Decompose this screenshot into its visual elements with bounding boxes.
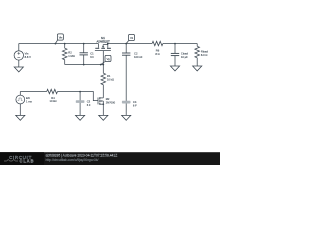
capacitor Cload xyxy=(171,44,179,67)
transistor M2 (NMOS 2N7000) xyxy=(98,97,103,115)
svg-text:Vin: Vin xyxy=(25,52,29,56)
wire gate node horizontal xyxy=(65,64,104,66)
node flag Vin xyxy=(55,34,64,45)
svg-text:6 F: 6 F xyxy=(87,103,91,107)
label Cload 10 µF xyxy=(181,51,189,58)
capacitor C4 xyxy=(122,101,131,116)
svg-text:10 kΩ: 10 kΩ xyxy=(49,99,56,103)
ground (under Cload) xyxy=(170,66,179,71)
svg-text:R4: R4 xyxy=(51,96,55,100)
svg-text:8.0 Ω: 8.0 Ω xyxy=(201,53,208,57)
label C4 6 F xyxy=(133,100,137,107)
label Rload 8.0 Ω xyxy=(201,49,209,56)
svg-text:10 µF: 10 µF xyxy=(181,55,188,59)
label M1 AON6512ST xyxy=(97,36,111,43)
resistor R4 xyxy=(47,89,58,93)
capacitor C2 xyxy=(122,44,130,102)
watermark bar xyxy=(0,152,220,165)
label R2 1 MΩ xyxy=(68,50,75,57)
ground (under Rload) xyxy=(193,66,202,71)
voltage source Vin xyxy=(14,44,23,68)
svg-text:CLAB: CLAB xyxy=(20,159,35,164)
svg-text:C2: C2 xyxy=(134,52,138,56)
svg-text:AON6512ST: AON6512ST xyxy=(97,39,111,43)
node flag Vg xyxy=(100,55,111,65)
node junction M2 source/bulk xyxy=(102,103,104,105)
resistor R6 xyxy=(152,41,163,45)
svg-text:1 MΩ: 1 MΩ xyxy=(68,54,75,58)
label EN 1 ms xyxy=(26,96,32,103)
ground (under C4) xyxy=(122,115,131,120)
label C3 6 F xyxy=(87,100,91,107)
svg-text:6 F: 6 F xyxy=(133,103,137,107)
node junction Cload top xyxy=(174,43,176,45)
ground (under C3) xyxy=(76,115,85,120)
svg-text:http://circuitlab.com/c/9jay26: http://circuitlab.com/c/9jay26vgse3k/ xyxy=(46,158,99,162)
ground (under EN) xyxy=(16,115,25,120)
node flag V1 xyxy=(125,34,134,44)
svg-text:C4: C4 xyxy=(133,100,137,104)
ground (under Vin) xyxy=(14,67,23,72)
label R6 8 Ω xyxy=(155,49,159,56)
wire R4 to M2 gate corner xyxy=(58,92,99,101)
capacitor C3 xyxy=(76,92,85,116)
label C1 6 F xyxy=(90,52,94,59)
svg-text:C3: C3 xyxy=(87,100,91,104)
node junction gate/R1 xyxy=(102,64,104,66)
label Vin 8.8 V xyxy=(25,52,31,59)
svg-text:R1: R1 xyxy=(107,74,111,78)
wire top rail left xyxy=(19,43,99,45)
svg-text:8.8 V: 8.8 V xyxy=(25,55,31,59)
label C2 100 nF xyxy=(134,52,143,59)
ground (under M2) xyxy=(99,115,108,120)
svg-text:R6: R6 xyxy=(156,49,160,53)
resistor R2 xyxy=(62,44,67,65)
node junction C1 top xyxy=(83,43,85,45)
capacitor C1 xyxy=(80,44,88,65)
resistor R1 xyxy=(101,65,106,98)
svg-text:Cload: Cload xyxy=(181,51,189,55)
node junction R2 top xyxy=(64,43,66,45)
wire M1 gate down xyxy=(102,51,104,65)
wire top rail right of R6 xyxy=(163,43,197,45)
label R4 10 kΩ xyxy=(49,96,56,103)
svg-text:1 ms: 1 ms xyxy=(26,100,32,104)
label R1 10 kΩ xyxy=(107,74,114,81)
svg-text:M2: M2 xyxy=(106,97,110,101)
watermark logo xyxy=(0,152,44,165)
svg-text:8 Ω: 8 Ω xyxy=(155,52,159,56)
svg-text:6 F: 6 F xyxy=(90,55,94,59)
wire EN to R4 xyxy=(20,91,46,93)
svg-text:100 nF: 100 nF xyxy=(134,55,143,59)
svg-text:10 kΩ: 10 kΩ xyxy=(107,78,114,82)
wire top rail right xyxy=(108,43,152,45)
resistor Rload xyxy=(195,44,200,67)
label M2 2N7000 xyxy=(106,97,116,104)
svg-text:ab6d9286 | Autosave 2023-04-11: ab6d9286 | Autosave 2023-04-11T07:15:58.… xyxy=(46,153,118,157)
node junction M1 bulk xyxy=(107,43,109,45)
svg-text:C1: C1 xyxy=(90,52,94,56)
node junction C3 top xyxy=(79,91,81,93)
transistor M1 (PMOS) xyxy=(95,44,111,51)
node junction C1 bottom xyxy=(83,64,85,66)
svg-text:Rload: Rload xyxy=(201,49,209,53)
svg-text:2N7000: 2N7000 xyxy=(106,100,116,104)
svg-text:EN: EN xyxy=(26,96,30,100)
svg-text:R2: R2 xyxy=(68,50,72,54)
voltage source EN (square wave) xyxy=(16,92,25,116)
